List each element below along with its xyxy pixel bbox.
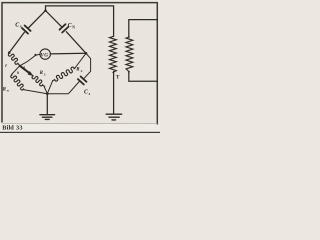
wire arm node T to capacitor Cn [46,11,62,28]
svg-text:T: T [116,74,120,80]
capacitor Cx [22,25,31,33]
resistor Rn meander [11,74,24,90]
svg-text:G: G [44,52,48,58]
ground left [40,115,55,120]
wire capacitor C4 to node B [47,81,79,94]
label Rn [3,87,9,92]
svg-text:n: n [7,88,9,92]
svg-text:4: 4 [88,92,90,96]
wire VG to node R [50,52,86,55]
svg-text:C: C [84,90,88,96]
wire arm node L to capacitor Cx [9,32,24,52]
wire top bus from node T to transformer secondary [46,6,114,37]
resistor r meander [8,53,19,66]
wire connector r to Rn [12,66,20,75]
wire primary top to edge [129,20,158,37]
svg-text:b: b [17,71,19,75]
capacitor Cn [60,24,69,32]
wire R3 to node B [44,87,47,94]
transformer T secondary winding [110,37,117,73]
wire node R to capacitor C4 [84,53,90,78]
label Cn [68,23,76,29]
wire node R to resistor R4 [75,53,86,68]
label R4 [76,68,82,73]
label b [17,71,19,75]
wire arm capacitor Cx to node T [29,11,46,28]
label Cx [15,22,22,28]
svg-text:N: N [72,25,75,29]
wire primary bottom to edge [129,72,158,81]
wire VG to wiper (wavy) [20,54,40,66]
resistor R4 meander [53,67,75,81]
svg-text:3: 3 [44,72,46,76]
ground right [106,114,121,120]
node R right bridge junction [85,52,88,55]
wire node B to ground [46,94,48,115]
galvanometer VG [40,49,50,59]
label T [116,74,120,80]
wiper arrow [19,65,34,76]
svg-text:r: r [5,64,7,69]
label r [5,64,7,69]
node T top bridge junction [44,9,47,12]
svg-text:x: x [19,24,22,29]
label a [23,66,25,70]
label C4 [84,90,90,96]
wire arm capacitor Cn to node R [66,32,86,54]
node B bottom bridge junction [46,92,49,95]
transformer T primary winding [126,37,133,72]
slide wire segment under wiper [20,66,32,76]
label R3 [40,71,46,76]
resistor R3 meander [32,75,45,86]
wire resistor R4 to node B [47,81,52,94]
wire secondary to ground [113,72,115,114]
capacitor C4 [78,76,87,84]
svg-text:4: 4 [81,69,83,73]
wire Rn to node B [24,90,47,94]
svg-text:a: a [23,66,25,70]
node L left bridge junction [8,51,11,54]
